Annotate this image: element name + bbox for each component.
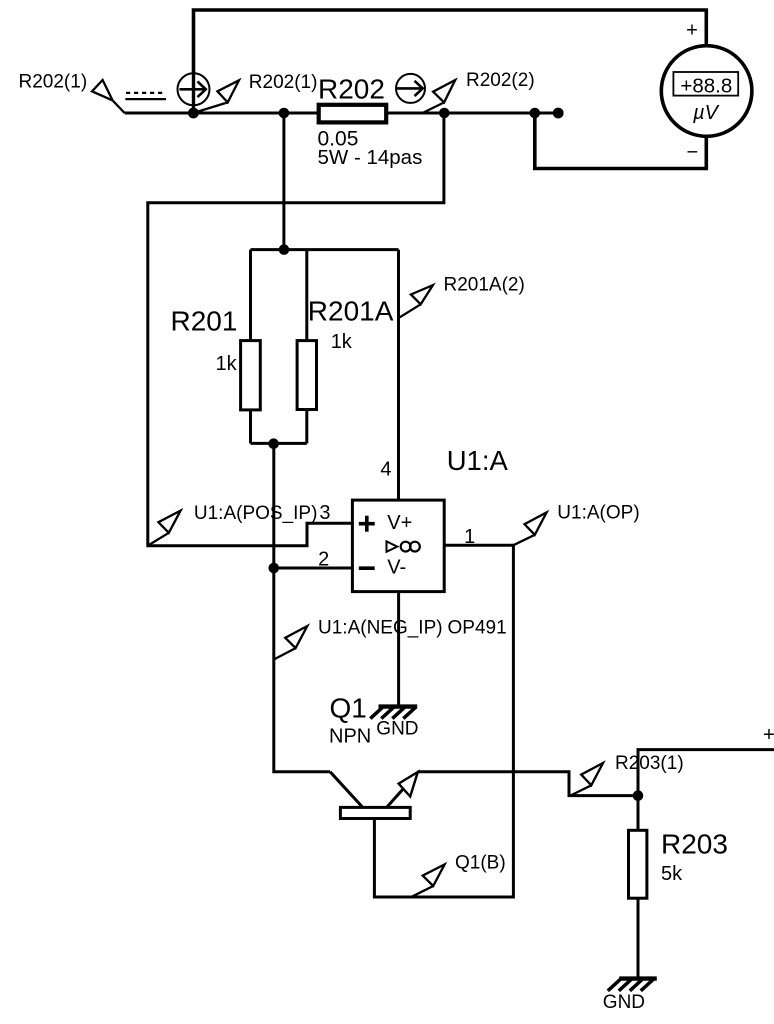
svg-text:OP491: OP491 — [448, 618, 507, 639]
meter circle — [661, 46, 752, 137]
op-amp U1:A body — [352, 500, 444, 591]
probe flag U1:A(POS_IP) — [148, 511, 181, 546]
svg-text:R201A: R201A — [308, 296, 394, 327]
wire main horizontal rail — [125, 112, 559, 115]
transistor Q1 base bar — [340, 807, 410, 818]
wire vertical through current probe circle — [192, 74, 195, 113]
svg-text:µV: µV — [692, 102, 720, 124]
wire R203 bottom lead to ground — [637, 898, 640, 978]
junction dot R201 top — [279, 244, 290, 255]
svg-text:R203(1): R203(1) — [615, 753, 684, 774]
probe flag U1:A(NEG_IP) — [274, 626, 308, 660]
probe flag R203(1) — [571, 763, 603, 795]
svg-text:R202: R202 — [318, 73, 385, 104]
svg-text:1k: 1k — [331, 331, 353, 353]
probe flag R202(1) at junction — [193, 80, 239, 113]
wire neg feedback vertical to Q1 collector — [274, 443, 330, 771]
wire R201A top lead — [305, 250, 308, 341]
wire op-amp output pin 1 feedback loop to Q1 base — [374, 545, 513, 897]
probe flag Q1(B) — [412, 864, 445, 896]
wire R201 bottom lead — [249, 410, 252, 444]
junction dot R203 node — [633, 790, 644, 801]
svg-text:R201A(2): R201A(2) — [444, 275, 525, 296]
wire R202 kelvin sense loop to op-amp pos input pin 3 — [148, 113, 444, 546]
junction dot rail end — [553, 108, 564, 119]
svg-text:NPN: NPN — [329, 726, 371, 748]
resistor R202 — [319, 105, 387, 123]
op-amp infinity glyph — [401, 542, 420, 552]
junction dot rail at meter branch — [530, 108, 541, 119]
svg-text:U1:A: U1:A — [447, 445, 509, 476]
wire R201A bottom lead — [305, 410, 308, 444]
svg-text:R202(2): R202(2) — [466, 70, 535, 91]
svg-text:1: 1 — [464, 526, 475, 548]
wire Q1 emitter to R203 node — [418, 772, 639, 796]
wire R201 top lead — [249, 250, 252, 341]
svg-text:R202(1): R202(1) — [249, 72, 318, 93]
svg-text:5k: 5k — [661, 863, 683, 885]
svg-text:R201: R201 — [171, 306, 238, 337]
ground symbol at op-amp — [370, 707, 417, 719]
current probe circle 2 — [396, 74, 425, 103]
ground symbol at R203 — [608, 979, 657, 991]
wire R202 pin1 down to R201 network — [282, 113, 285, 250]
op-amp plus input marker — [359, 516, 375, 532]
svg-text:5W - 14pas: 5W - 14pas — [318, 146, 423, 169]
wire op-amp neg input pin 2 — [274, 567, 353, 570]
current probe circle 1 — [178, 73, 210, 105]
op-amp minus input marker — [359, 566, 375, 570]
svg-text:+: + — [763, 724, 774, 746]
svg-text:U1:A(NEG_IP): U1:A(NEG_IP) — [318, 618, 443, 639]
wire op-amp ground stub — [397, 592, 400, 706]
wire R201A(2) net down to op-amp pin 4 — [397, 250, 400, 501]
junction dot rail at R202 pin2 — [439, 108, 450, 119]
junction dot op-amp pin 2 — [269, 563, 280, 574]
svg-text:−: − — [686, 141, 698, 163]
probe flag R202(1) input — [92, 80, 125, 113]
resistor R201A — [297, 341, 316, 410]
dc source dash marker — [125, 93, 166, 99]
svg-text:Q1(B): Q1(B) — [455, 853, 506, 874]
svg-text:R203: R203 — [661, 829, 728, 860]
svg-text:V+: V+ — [387, 512, 412, 534]
svg-text:+88.8: +88.8 — [680, 74, 732, 97]
probe flag R202(2) — [424, 80, 456, 113]
transistor Q1 emitter diagonal — [387, 779, 412, 807]
transistor Q1 emitter arrow — [399, 772, 418, 797]
wire meter bottom return — [535, 113, 707, 169]
resistor R203 — [629, 830, 647, 898]
resistor R201 — [241, 341, 261, 410]
svg-text:1k: 1k — [216, 353, 238, 375]
svg-text:2: 2 — [318, 549, 329, 571]
svg-text:GND: GND — [603, 992, 645, 1013]
wire R203 node up and right to edge — [638, 750, 774, 796]
op-amp ideal triangle glyph — [387, 541, 398, 551]
svg-text:R202(1): R202(1) — [19, 72, 88, 93]
wire R201 network top rail — [251, 248, 399, 251]
probe flag U1:A(OP) — [513, 512, 546, 545]
meter display box +88.8 — [673, 72, 738, 96]
svg-text:+: + — [686, 20, 698, 42]
wire R203 top lead — [637, 796, 640, 831]
wire top loop from probe to meter plus terminal — [194, 10, 707, 74]
wire R201 network bottom rail — [251, 442, 307, 445]
junction dot rail at R202 pin1 — [279, 108, 290, 119]
probe flag R201A(2) — [399, 285, 433, 318]
junction dot R201 bottom — [268, 438, 279, 449]
svg-text:Q1: Q1 — [330, 693, 367, 724]
svg-text:GND: GND — [376, 719, 418, 740]
svg-text:4: 4 — [380, 458, 391, 480]
svg-text:V-: V- — [387, 557, 406, 579]
svg-text:U1:A(POS_IP): U1:A(POS_IP) — [194, 503, 318, 524]
svg-text:U1:A(OP): U1:A(OP) — [557, 503, 639, 524]
svg-text:3: 3 — [319, 502, 330, 524]
transistor Q1 collector diagonal — [330, 772, 362, 807]
junction dot rail at probe 1 — [188, 108, 199, 119]
